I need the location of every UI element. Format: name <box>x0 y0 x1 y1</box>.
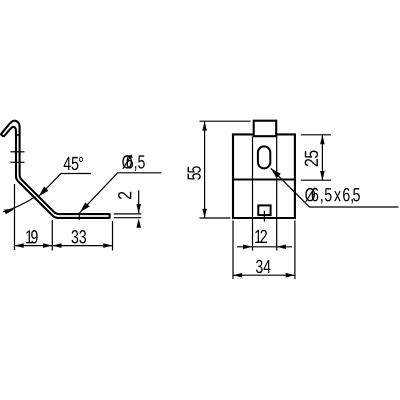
label 19 <box>26 230 37 243</box>
arrowhead 34 left <box>233 273 242 278</box>
dia 6,5 leader arrowhead <box>80 202 90 212</box>
label dia 6,5x6,5 <box>305 188 315 202</box>
extension line left (bend) <box>14 184 16 250</box>
extension line 12 right (from tab corner through body) <box>276 137 278 251</box>
arrowhead 33 right <box>103 243 112 248</box>
dimension line 34 <box>233 274 295 276</box>
extension line 25 bottom <box>301 179 331 181</box>
slot upper edge tick on profile <box>11 151 25 153</box>
label 45deg <box>64 157 83 170</box>
arrowhead 25 bottom <box>320 171 325 180</box>
45deg leader shelf <box>39 174 92 197</box>
extension line 34 left <box>232 221 234 280</box>
45deg leader arrowhead <box>39 187 49 197</box>
right view: body rectangle <box>233 134 295 218</box>
arrowhead 55 top <box>202 121 207 130</box>
sheet inner surface line (hook tip over apex, down vertical, 45-deg bend, flange top) <box>1 121 110 214</box>
dimension line 12 with outside arrows <box>237 246 292 248</box>
arrowhead 33 left <box>52 243 61 248</box>
extension line middle (flange start) <box>51 220 53 251</box>
extension line 34 right <box>294 221 296 280</box>
label dia 6,5 <box>122 155 132 169</box>
extension line 55 bottom <box>200 217 231 219</box>
hole tick on flange <box>78 212 80 220</box>
arrowhead 19 right <box>43 243 52 248</box>
label 2 (rotated) <box>118 192 131 199</box>
square hole centerline <box>263 211 265 222</box>
angle arc 45deg <box>3 197 35 212</box>
dimension line 55 <box>204 121 206 218</box>
extension line 55 top <box>200 120 251 122</box>
arrowhead 25 top <box>320 135 325 144</box>
dimension 2 upper arrowhead <box>136 204 141 213</box>
extension line 25 top <box>301 134 331 136</box>
right view: square hole <box>258 205 270 215</box>
label 55 (rotated) <box>188 166 201 180</box>
extension line 12 left (from tab corner through body) <box>252 137 254 251</box>
label 33 <box>72 230 86 243</box>
label 25 (rotated) <box>305 150 318 166</box>
right view: bend line <box>233 178 295 180</box>
arrowhead 34 right <box>286 273 295 278</box>
right view: top tab <box>254 121 277 137</box>
dimension 2 upper arrow line <box>138 190 140 213</box>
left view: bent sheet profile <box>1 121 110 218</box>
leader arrowhead 6,5x6,5 <box>271 168 281 178</box>
extension line right (flange end) <box>112 221 114 251</box>
arrowhead 12 left <box>243 245 252 250</box>
thickness extension line bottom <box>114 217 142 219</box>
dimension line 25 <box>321 135 323 180</box>
arrowhead 55 bottom <box>202 209 207 218</box>
dimension 2 lower arrowhead <box>136 219 141 228</box>
arrowhead 12 right <box>277 245 286 250</box>
dimension line 19 / 33 <box>15 245 113 247</box>
tab/body edge line on profile <box>16 134 20 136</box>
sheet outer surface line (hook tip, down vertical, 45-deg bend, flange bottom) <box>4 127 110 218</box>
sheet end cap <box>109 213 111 218</box>
label 34 <box>256 260 271 273</box>
slot lower edge tick on profile <box>11 161 25 163</box>
thickness extension line top <box>114 213 142 215</box>
angle arc arrowhead <box>4 209 14 214</box>
right view: slot (oblong hole) <box>258 146 270 168</box>
arrowhead 19 left <box>15 243 24 248</box>
leader for 6,5x6,5 <box>271 168 399 207</box>
label 12 <box>255 230 267 243</box>
dia 6,5 leader shelf <box>80 173 161 213</box>
